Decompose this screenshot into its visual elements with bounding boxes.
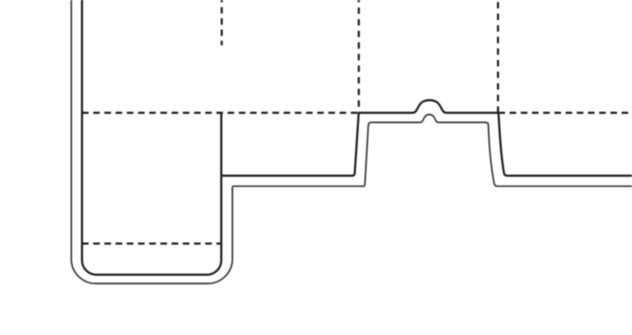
fold line: flap crease inside left flap — [82, 243, 221, 245]
blank bottom edge with locking tab bump — [221, 100, 632, 176]
inner blank outline: left flap panel with rounded bottom corners — [82, 0, 221, 275]
outer cut contour: left flap outer edge, lower offset line, inner bump contour — [71, 0, 632, 284]
fold line: vertical crease at right edge of tab panel — [497, 0, 499, 113]
fold line: main horizontal crease left segment — [82, 112, 359, 114]
fold line: short vertical crease top left — [221, 0, 223, 45]
fold line: main horizontal crease right segment — [498, 112, 632, 114]
fold line: vertical crease at left edge of tab panel — [358, 0, 360, 113]
